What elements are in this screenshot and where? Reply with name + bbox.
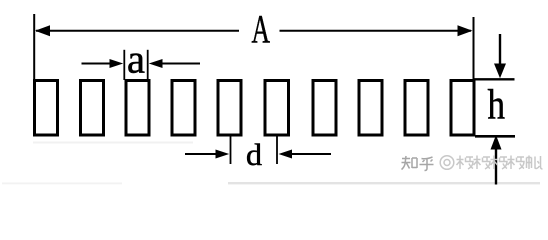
svg-text:h: h — [488, 81, 506, 128]
tooth rectangle 1 — [35, 81, 58, 136]
dimension A line left segment — [36, 30, 239, 32]
svg-text:a: a — [127, 37, 145, 82]
dimension h down arrowhead — [494, 64, 506, 79]
dimension d right tick — [276, 137, 278, 165]
tooth rectangle 2 — [81, 81, 104, 136]
watermark char 杨 1 — [457, 156, 474, 170]
dimension A left arrowhead — [35, 25, 50, 36]
tooth rectangle 3 — [126, 81, 149, 136]
faint scan artifact line under teeth — [33, 142, 193, 144]
svg-text:A: A — [252, 6, 271, 51]
dimension a left arrow line — [82, 63, 113, 65]
dimension d left arrowhead — [216, 150, 230, 159]
tooth rectangle 9 — [405, 81, 428, 136]
dimension a right tick — [147, 50, 149, 80]
dimension h down arrow shaft — [499, 34, 501, 66]
watermark Zhihu logo text 乎 — [420, 157, 434, 171]
watermark Zhihu logo text 知 — [402, 156, 418, 170]
dimension d left arrow line — [185, 153, 217, 155]
dimension h top extension line — [474, 78, 515, 80]
tooth rectangle 7 — [313, 81, 336, 136]
dimension a right arrowhead — [149, 59, 163, 68]
faint scan artifact line bottom — [228, 182, 540, 184]
dimension d left tick — [230, 137, 232, 165]
tooth rectangle 8 — [359, 81, 382, 136]
svg-text:d: d — [246, 137, 263, 172]
dimension A right extension line — [473, 17, 475, 80]
dimension a left arrowhead — [110, 59, 124, 68]
watermark char 杨 4 — [508, 156, 525, 170]
tooth rectangle 6 — [265, 81, 289, 136]
dimension A left extension line — [33, 14, 35, 80]
watermark @ sign — [440, 156, 454, 170]
dimension h bottom extension line — [475, 135, 515, 138]
dimension A line right segment — [280, 30, 472, 32]
dimension a left tick — [123, 50, 125, 80]
watermark char 杨 2 — [474, 156, 491, 170]
dimension a right arrow line — [160, 63, 200, 65]
dimension d right arrowhead — [279, 150, 293, 159]
watermark char 帆 — [527, 156, 543, 170]
dimension d right arrow line — [290, 153, 331, 155]
dimension A right arrowhead — [458, 25, 473, 36]
dimension h up arrowhead — [491, 135, 502, 150]
tooth rectangle 4 — [172, 81, 195, 136]
tooth rectangle 10 — [451, 81, 474, 136]
tooth rectangle 5 — [218, 81, 241, 136]
faint scan artifact line bottom left — [2, 183, 122, 185]
dimension h up arrow shaft — [495, 147, 497, 185]
watermark char 杨 3 — [491, 156, 508, 170]
